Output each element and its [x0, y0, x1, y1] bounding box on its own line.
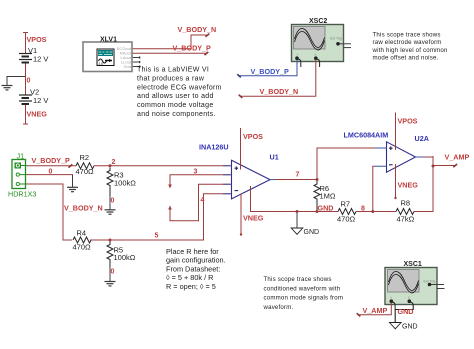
wire U1 ref pin to gnd rail — [251, 186, 339, 212]
node 7 label — [296, 172, 300, 179]
wire R7 to R8 (node 8) — [356, 210, 396, 213]
wire R4 to U1 (-) riser — [90, 194, 231, 242]
note LabVIEW description — [137, 67, 222, 119]
svg-text:This scope trace shows: This scope trace shows — [373, 32, 441, 39]
node GND text (black) — [304, 229, 320, 236]
svg-text:GND: GND — [318, 204, 334, 213]
svg-text:R8: R8 — [401, 199, 411, 208]
svg-text:common mode signals from: common mode signals from — [264, 295, 344, 302]
svg-text:4: 4 — [201, 197, 205, 204]
wire XLV1 pin1 to V_BODY_N connector — [133, 34, 210, 49]
resistor R8 — [396, 199, 415, 224]
node 0 label (R3) — [111, 198, 115, 205]
svg-text:R7: R7 — [341, 200, 351, 209]
node 0 label (battery mid) — [27, 78, 31, 85]
node V_AMP label (U2A) — [445, 153, 470, 162]
node VPOS label (U2A) — [398, 117, 418, 126]
node 5 label — [155, 233, 159, 240]
svg-text:U1: U1 — [270, 153, 279, 162]
svg-text:mode offset and noise.: mode offset and noise. — [373, 55, 439, 62]
svg-text:VPOS: VPOS — [27, 35, 47, 44]
svg-text:470Ω: 470Ω — [73, 243, 92, 252]
svg-text:V_BODY_P: V_BODY_P — [251, 67, 290, 76]
XLV1 pin stubs 3-5 — [133, 56, 141, 67]
resistor R2 — [76, 153, 95, 176]
node VNEG label (U2A) — [398, 181, 419, 190]
node V_BODY_N label (J1) — [64, 204, 103, 213]
resistor R4 — [73, 229, 92, 252]
ground (XSC1 open triangle) — [390, 323, 402, 329]
svg-text:7: 7 — [296, 172, 300, 179]
svg-text:1MΩ: 1MΩ — [320, 192, 336, 201]
wire U2A VPOS — [395, 113, 397, 151]
svg-text:waveform.: waveform. — [263, 304, 294, 311]
wire XSC1 A to V_AMP connector — [357, 303, 392, 317]
node VPOS label (U1) — [243, 132, 263, 141]
svg-text:◊ = 5 + 80k / R: ◊ = 5 + 80k / R — [166, 273, 213, 282]
wire XLV1 pin2 to V_BODY_P connector — [133, 52, 209, 55]
resistor R7 — [337, 200, 356, 224]
wire V2 bottom / VNEG — [23, 105, 28, 125]
svg-text:This is a LabVIEW VI: This is a LabVIEW VI — [137, 67, 209, 74]
wire XSC1 B to ground — [395, 302, 413, 322]
svg-text:VNEG: VNEG — [27, 110, 48, 119]
svg-text:raw electrode waveform: raw electrode waveform — [373, 39, 442, 46]
wire U1 VPOS — [240, 128, 242, 170]
RG stub upper (gain pin) — [168, 175, 230, 189]
node GND text (black, XSC1) — [402, 324, 418, 331]
svg-text:VPOS: VPOS — [243, 132, 263, 141]
svg-text:5: 5 — [155, 233, 159, 240]
svg-text:V_BODY_N: V_BODY_N — [260, 87, 299, 96]
svg-text:2.5: 2.5 — [99, 62, 104, 66]
svg-text:This scope trace shows: This scope trace shows — [264, 276, 332, 283]
svg-text:From Datasheet:: From Datasheet: — [166, 264, 220, 273]
node V_BODY_P label (XLV1) — [173, 43, 212, 52]
svg-text:0: 0 — [111, 269, 115, 276]
node 0 label (R5) — [111, 269, 115, 276]
XLV1 pin labels — [117, 46, 132, 69]
node GND label (red) — [318, 204, 334, 213]
wire J1 pin2 to ground — [27, 175, 73, 187]
svg-text:gain configuration.: gain configuration. — [166, 256, 226, 265]
svg-text:100kΩ: 100kΩ — [114, 179, 136, 188]
svg-text:that produces a raw: that produces a raw — [137, 75, 205, 82]
wire R8 to output riser — [414, 156, 433, 212]
node GND label (red, XSC1) — [398, 307, 414, 316]
wire U2A VNEG — [394, 164, 396, 199]
ground (J1 mid) — [67, 187, 78, 191]
svg-text:conditioned waveform with: conditioned waveform with — [264, 285, 341, 292]
ground (GND symbol open triangle) — [291, 228, 303, 234]
wire XSC2 A to V BODY P connector (blue) — [237, 60, 297, 78]
svg-text:VPOS: VPOS — [398, 117, 418, 126]
wire to ground (battery) — [7, 77, 26, 86]
oscilloscope XSC1 — [385, 261, 445, 310]
svg-text:V_BODY_N: V_BODY_N — [64, 204, 103, 213]
node 4 label — [201, 197, 205, 204]
ground (R3) — [105, 210, 116, 214]
svg-text:8: 8 — [361, 206, 365, 213]
wire gnd rail drop — [296, 210, 299, 228]
wire V1 bottom to node 0 — [25, 64, 27, 95]
node V BODY P label (scope, blue) — [251, 67, 290, 76]
LabVIEW block XLV1 — [83, 37, 132, 72]
ground (R5) — [105, 282, 116, 286]
wire J1 pin3 down-right to R4 — [27, 184, 73, 240]
op-amp U1 INA126U — [199, 143, 279, 199]
svg-text:Place R here for: Place R here for — [166, 247, 219, 256]
battery V1 — [19, 46, 48, 64]
svg-text:VNEG: VNEG — [398, 181, 419, 190]
wire J1 pin1 to R2 — [27, 164, 77, 167]
svg-text:GND: GND — [398, 307, 414, 316]
svg-text:B: B — [315, 53, 317, 57]
svg-text:Gnd: Gnd — [123, 64, 131, 69]
RG stub lower (gain pin) — [168, 184, 230, 221]
svg-text:U2A: U2A — [415, 134, 429, 143]
oscilloscope XSC2 — [292, 18, 352, 67]
svg-text:A: A — [297, 53, 299, 57]
node 2 label — [112, 159, 116, 166]
svg-text:R2: R2 — [80, 153, 90, 162]
svg-text:V_AMP: V_AMP — [445, 153, 470, 162]
note gain config — [166, 247, 226, 291]
svg-text:and allows user to add: and allows user to add — [137, 93, 214, 100]
note raw waveform — [372, 32, 448, 62]
svg-text:R4: R4 — [77, 229, 87, 238]
node VNEG label (U1) — [243, 213, 264, 222]
node VNEG label — [27, 110, 48, 119]
svg-text:Ext Trig: Ext Trig — [330, 37, 342, 41]
node V_BODY_N label (top) — [178, 25, 217, 34]
node V BODY N label (scope) — [260, 87, 299, 96]
svg-text:electrode ECG waveform: electrode ECG waveform — [137, 84, 222, 91]
resistor R3 — [107, 168, 136, 197]
note conditioned waveform — [263, 276, 344, 311]
svg-text:INA126U: INA126U — [199, 143, 229, 152]
wire R3 to ground — [109, 196, 111, 210]
svg-text:47kΩ: 47kΩ — [397, 215, 415, 224]
node 8 label — [361, 206, 365, 213]
svg-text:12 V: 12 V — [33, 96, 48, 105]
svg-text:0: 0 — [111, 198, 115, 205]
node V_BODY_P label (J1) — [32, 156, 71, 165]
svg-text:GND: GND — [402, 324, 418, 331]
resistor R6 — [314, 181, 336, 213]
svg-text:B: B — [408, 296, 410, 300]
wire U2A output — [424, 157, 435, 168]
op-amp U2A LMC6084AIM — [344, 131, 429, 173]
svg-text:V_BODY_P: V_BODY_P — [32, 156, 71, 165]
svg-text:R = open; ◊ = 5: R = open; ◊ = 5 — [166, 282, 216, 291]
svg-text:V_BODY_P: V_BODY_P — [173, 43, 212, 52]
svg-text:and noise components.: and noise components. — [137, 111, 216, 118]
svg-text:12 V: 12 V — [33, 55, 48, 64]
svg-text:VNEG: VNEG — [243, 213, 264, 222]
wire U1 VNEG — [240, 194, 242, 236]
svg-text:with high level of common: with high level of common — [372, 47, 448, 54]
connector J1 — [8, 152, 36, 199]
wire VPOS top stub — [23, 32, 28, 54]
svg-text:2: 2 — [112, 159, 116, 166]
ground (battery) — [2, 86, 13, 90]
wire U1 output to R6 node and U2A + — [275, 148, 375, 181]
wire V_AMP connector — [433, 164, 457, 167]
svg-text:100kΩ: 100kΩ — [114, 253, 136, 262]
node 3 label — [194, 169, 198, 176]
svg-text:HDR1X3: HDR1X3 — [8, 190, 36, 199]
wire R5 to ground — [109, 267, 111, 282]
wire R2 to node 2 and on to U1 pin + — [94, 164, 231, 167]
resistor R5 — [107, 242, 136, 267]
svg-text:0: 0 — [27, 78, 31, 85]
svg-text:A: A — [390, 296, 392, 300]
svg-text:V_BODY_N: V_BODY_N — [178, 25, 217, 34]
node 0 label (J1 mid) — [49, 169, 53, 176]
svg-text:common mode voltage: common mode voltage — [137, 102, 214, 109]
svg-text:470Ω: 470Ω — [337, 215, 356, 224]
wire U2A feedback — [373, 166, 375, 211]
svg-text:GND: GND — [304, 229, 320, 236]
node VPOS label — [27, 35, 47, 44]
svg-text:V_AMP: V_AMP — [363, 306, 388, 315]
svg-text:XLV1: XLV1 — [100, 37, 117, 44]
node V_AMP label (XSC1) — [363, 306, 388, 315]
battery V2 — [19, 88, 48, 106]
svg-text:LMC6084AIM: LMC6084AIM — [344, 131, 389, 140]
svg-text:470Ω: 470Ω — [76, 167, 95, 176]
wire XSC2 B to V BODY N connector (red) — [239, 60, 316, 98]
